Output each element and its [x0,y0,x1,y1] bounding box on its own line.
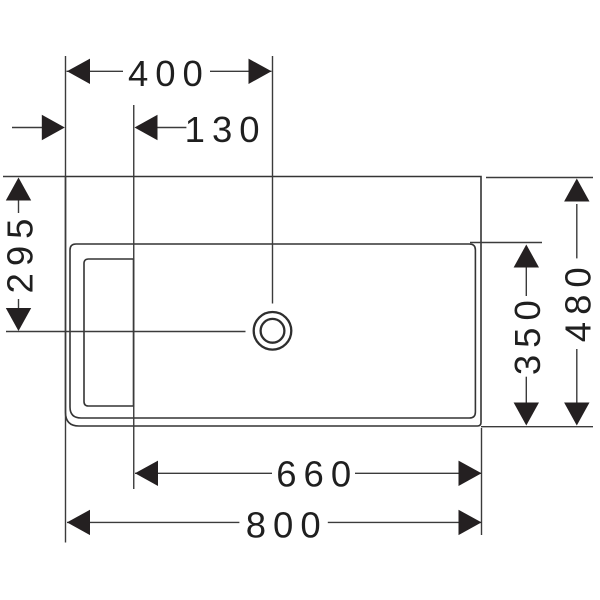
basin inner rim [70,244,475,418]
dim 350 line lower segment [525,377,527,404]
arrowhead 800 left [67,510,90,535]
dim 130 left tail [12,127,42,129]
extension line horizontal rim-top right y=242.5 [470,242,542,244]
arrowhead 130 right (outside, pointing left) [135,115,158,140]
extension line vertical at basin left x=65.5 [65,56,67,543]
arrowhead 130 left (outside, pointing right) [42,115,65,140]
arrowhead 350 top (up) [514,245,539,268]
extension line horizontal top-right y=177.5 [486,177,593,179]
extension line horizontal bottom-right y=426.7 [481,426,593,428]
dim 350 line upper segment [525,267,527,296]
dim 660 line right segment [355,472,481,474]
dim 480 line lower segment [576,349,578,404]
arrowhead 295 bottom (down) [6,308,31,331]
dim 660 line left segment [135,472,272,474]
svg-text:350: 350 [507,293,548,375]
dim 480 line upper segment [576,204,578,258]
svg-text:130: 130 [185,109,267,150]
extension line vertical at faucet axis x=272.5 [272,56,274,304]
dim 295 line upper segment [18,199,20,213]
dim 800 line left segment [67,521,239,523]
arrowhead 800 right [459,510,482,535]
arrowhead 400 left [67,59,90,84]
dim 800 line right segment [328,521,481,523]
extension line vertical at basin right x=481.5 [481,428,483,535]
svg-text:295: 295 [0,212,40,294]
arrowhead 480 bottom (down) [564,403,589,426]
dim 130 right tail [157,127,186,129]
extension line horizontal faucet axis y=331.5 [6,331,246,333]
dim 400 line right segment [210,70,272,72]
arrowhead 660 left [135,461,158,486]
extension line horizontal top-left y=176.5 [3,176,66,178]
arrowhead 295 top (up) [6,178,31,201]
faucet hole outer circle [254,312,292,350]
svg-text:480: 480 [557,260,598,342]
arrowhead 480 top (up) [564,179,589,202]
svg-text:800: 800 [246,505,328,546]
arrowhead 660 right [459,461,482,486]
dim 400 line left segment [67,70,124,72]
faucet hole inner circle [261,319,285,343]
left shelf [84,259,134,406]
arrowhead 400 right [249,59,272,84]
svg-text:400: 400 [128,53,210,94]
extension line vertical at shelf right x=133.75 [133,105,135,489]
basin outer contour [66,177,482,427]
svg-text:660: 660 [276,454,358,495]
dim 295 line lower segment [18,299,20,310]
arrowhead 350 bottom (down) [514,403,539,426]
